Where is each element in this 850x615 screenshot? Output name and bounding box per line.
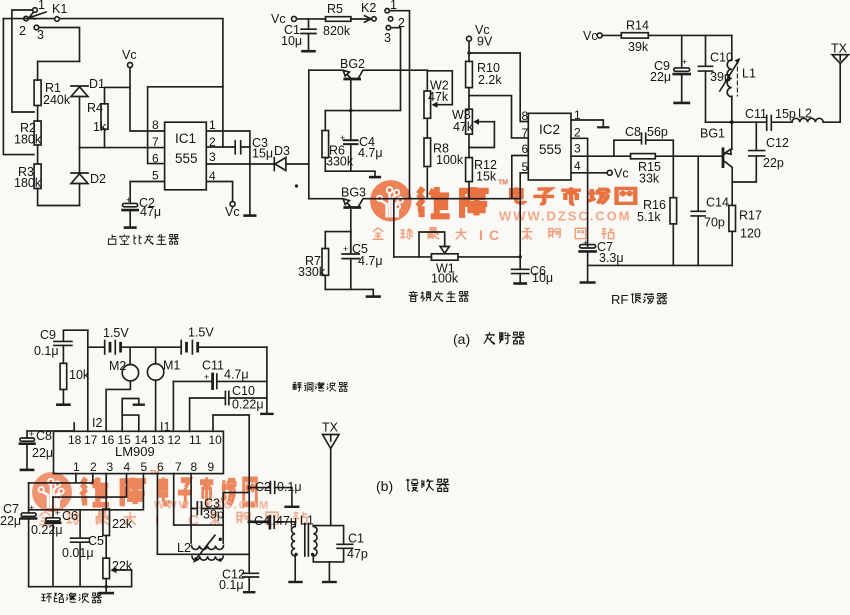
svg-text:I: I — [479, 227, 483, 243]
wire IC2 pin1 stub — [571, 120, 603, 127]
svg-text:10: 10 — [209, 433, 223, 447]
svg-text:120: 120 — [740, 227, 761, 241]
svg-text:3: 3 — [384, 31, 391, 45]
potentiometer W1 — [394, 232, 520, 260]
svg-text:Vc: Vc — [614, 167, 629, 181]
svg-text:TX: TX — [322, 421, 339, 435]
IC LM909 — [54, 431, 224, 473]
svg-text:R17: R17 — [739, 209, 762, 223]
capacitor C5 — [342, 232, 359, 290]
battery B2 1.5V — [181, 341, 267, 354]
capacitor C12 receiver 0.1u — [243, 573, 259, 592]
switch K2 — [351, 9, 393, 30]
svg-text:11: 11 — [189, 433, 202, 447]
ground below C5 — [367, 295, 380, 298]
svg-text:(a): (a) — [453, 331, 470, 347]
transistor BG3 — [309, 199, 520, 208]
wire pin7 hook — [174, 474, 224, 525]
svg-text:1: 1 — [73, 460, 80, 474]
svg-text:K2: K2 — [361, 1, 376, 15]
svg-text:TM: TM — [498, 180, 508, 187]
wire pin6 up-over to K1 drop — [148, 87, 223, 164]
svg-text:15k: 15k — [476, 170, 497, 184]
svg-text:9V: 9V — [477, 35, 493, 49]
svg-text:D2: D2 — [90, 172, 106, 186]
svg-text:9: 9 — [208, 460, 215, 474]
svg-text:0.1μ: 0.1μ — [34, 344, 59, 358]
microphone M1 — [147, 347, 163, 431]
potentiometer W3 — [466, 109, 495, 157]
resistor 10k — [57, 363, 69, 404]
svg-text:10μ: 10μ — [281, 34, 302, 48]
svg-text:3.3μ: 3.3μ — [599, 251, 624, 265]
svg-text:56p: 56p — [647, 125, 668, 139]
svg-text:6: 6 — [157, 460, 164, 474]
svg-text:D3: D3 — [274, 144, 290, 158]
svg-text:C8: C8 — [625, 125, 641, 139]
capacitor C7 receiver 22u — [21, 483, 36, 587]
svg-text:M1: M1 — [163, 359, 180, 373]
svg-text:10k: 10k — [69, 368, 90, 382]
transistor BG2 — [309, 70, 428, 79]
svg-text:I1: I1 — [160, 420, 170, 434]
diode D1 — [71, 86, 88, 148]
resistor R14 — [621, 33, 732, 38]
svg-text:1: 1 — [574, 108, 581, 122]
svg-text:16: 16 — [101, 433, 115, 447]
svg-text:0.22μ: 0.22μ — [232, 398, 264, 412]
bottom watermark — [32, 470, 307, 530]
wire pin10 hook to long column — [213, 415, 249, 573]
wire BG3 base down — [350, 208, 352, 232]
tank circuit C1 47p — [313, 526, 352, 582]
resistor R5 — [326, 17, 351, 22]
wire R6/C4 bottom to ground — [325, 171, 375, 176]
pin15 hook with ground — [122, 399, 144, 432]
svg-text:C4: C4 — [254, 514, 270, 528]
Vc terminal RF — [597, 33, 621, 38]
battery B1 1.5V — [88, 341, 181, 354]
wire pin12 column up — [172, 381, 174, 431]
svg-text:C14: C14 — [706, 196, 729, 210]
top watermark — [370, 180, 635, 244]
wire mid D1D2 junction to IC1 pin7 — [80, 147, 165, 149]
svg-text:6: 6 — [522, 142, 529, 156]
svg-text:47μ: 47μ — [276, 514, 297, 528]
capacitor C2 receiver 0.1u — [249, 482, 298, 507]
svg-text:8: 8 — [152, 118, 159, 132]
svg-text:LM909: LM909 — [115, 444, 155, 459]
capacitor C9 receiver 0.1u — [54, 330, 88, 363]
svg-text:3: 3 — [37, 28, 44, 42]
pin1 end bar — [598, 126, 608, 128]
resistor R7 — [322, 232, 329, 290]
svg-text:RF: RF — [611, 292, 628, 307]
wire pin1 to ground column — [206, 131, 250, 215]
resistor R15 — [631, 154, 656, 159]
capacitor C2 — [123, 203, 138, 227]
svg-text:L1: L1 — [742, 67, 756, 81]
svg-text:+: + — [29, 429, 34, 439]
wire IC2 pin2 to C7 column — [571, 138, 588, 246]
svg-text:Vc: Vc — [225, 205, 240, 219]
svg-text:3: 3 — [107, 460, 114, 474]
wire contact3 to D1 column — [39, 28, 80, 62]
svg-text:BG1: BG1 — [700, 127, 725, 141]
svg-text:0.01μ: 0.01μ — [62, 546, 94, 560]
wire R3 bottom to D2 bottom — [38, 189, 80, 206]
svg-text:4: 4 — [209, 169, 216, 183]
svg-text:22μ: 22μ — [650, 70, 671, 84]
svg-text:3: 3 — [209, 150, 216, 164]
svg-text:R5: R5 — [327, 2, 343, 16]
svg-text:10μ: 10μ — [532, 271, 553, 285]
wire pin4 to Vc terminal — [206, 182, 235, 207]
svg-text:2: 2 — [209, 135, 216, 149]
svg-text:70p: 70p — [704, 216, 725, 230]
ground below rail — [100, 587, 113, 593]
wire K1 top rail to pin2 drop — [3, 19, 223, 147]
caption demodulation filter — [293, 382, 348, 392]
svg-text:2: 2 — [398, 16, 405, 30]
svg-text:(b): (b) — [376, 478, 393, 494]
svg-text:7: 7 — [152, 135, 159, 149]
svg-text:555: 555 — [539, 142, 562, 157]
node dot BG1 collector — [730, 120, 734, 124]
LM909 pin numbers bottom — [73, 460, 215, 474]
svg-text:+: + — [55, 508, 60, 518]
ground pin1/C3 — [245, 214, 256, 217]
wire IC2 pin3 to R15 and BG1 base — [571, 155, 723, 157]
capacitor C3 — [206, 141, 250, 154]
diode D3 — [274, 158, 309, 171]
potentiometer W2 — [424, 70, 452, 138]
svg-text:1: 1 — [390, 0, 397, 12]
svg-text:BG2: BG2 — [340, 57, 365, 71]
svg-text:180k: 180k — [14, 176, 42, 190]
svg-text:47k: 47k — [428, 90, 449, 104]
svg-text:1.5V: 1.5V — [188, 326, 214, 340]
capacitor C11 receiver 4.7u — [173, 374, 267, 389]
svg-text:+: + — [29, 503, 34, 513]
wire contact1 to R1R2 junction — [12, 10, 34, 112]
svg-text:1: 1 — [38, 0, 45, 12]
resistor R2 — [34, 121, 41, 145]
svg-text:+: + — [583, 238, 588, 248]
svg-text:820k: 820k — [323, 24, 351, 38]
wire C3 right column — [223, 493, 249, 543]
Vc 9V terminal — [467, 36, 472, 61]
capacitor C10 receiver 0.22u — [190, 392, 267, 432]
resistor R10 — [466, 61, 473, 109]
LM909 pin numbers top — [68, 433, 222, 447]
capacitor C10 39n — [698, 35, 712, 122]
wire battery2 column down — [266, 347, 268, 413]
svg-text:4: 4 — [124, 460, 131, 474]
IC2 555 — [528, 113, 571, 180]
svg-text:C10: C10 — [710, 51, 733, 65]
svg-text:2: 2 — [90, 460, 97, 474]
wire R2-R3 — [37, 145, 39, 164]
svg-text:5.1k: 5.1k — [637, 210, 661, 224]
resistor R6 — [322, 111, 329, 172]
wire R7 C5 top junction — [325, 231, 351, 233]
caption audio generator — [409, 291, 469, 302]
capacitor C4 receiver 47u — [249, 516, 295, 528]
svg-text:Vc: Vc — [583, 29, 598, 43]
svg-text:12: 12 — [168, 433, 182, 447]
svg-text:C11: C11 — [202, 359, 224, 373]
svg-text:WWW.DZSC.COM: WWW.DZSC.COM — [499, 209, 631, 224]
pin18 stub — [73, 423, 75, 431]
Vc terminal top-left — [128, 63, 165, 132]
svg-text:7: 7 — [522, 126, 529, 140]
svg-text:1k: 1k — [93, 120, 107, 134]
svg-text:100k: 100k — [436, 153, 464, 167]
svg-text:2: 2 — [574, 126, 581, 140]
svg-text:47μ: 47μ — [140, 205, 161, 219]
wire R1-R2 — [37, 106, 39, 122]
ground below C7 — [581, 281, 594, 284]
wire K2 contact1 down long column — [389, 11, 409, 199]
svg-text:5: 5 — [141, 460, 148, 474]
end bar below C10 — [261, 413, 272, 415]
resistor R1 — [34, 80, 41, 106]
svg-text:R4: R4 — [87, 101, 103, 115]
wire pin5 to C2 — [130, 182, 164, 204]
svg-text:0.22μ: 0.22μ — [31, 523, 63, 537]
svg-text:8: 8 — [191, 460, 198, 474]
svg-text:7: 7 — [175, 460, 182, 474]
inductor L2 — [792, 118, 840, 122]
svg-text:0.1μ: 0.1μ — [277, 480, 302, 494]
IC2 pin numbers — [522, 108, 582, 174]
capacitor C1 — [301, 19, 316, 51]
caption loop filter — [41, 593, 102, 603]
svg-text:15μ: 15μ — [252, 147, 273, 161]
wire node to C11 — [732, 121, 767, 123]
resistor R4 — [101, 87, 130, 147]
wire Vc9V to IC2 pin8 — [469, 53, 528, 122]
svg-text:Vc: Vc — [122, 48, 137, 62]
svg-text:4: 4 — [574, 159, 581, 173]
wire emitter column left — [308, 70, 310, 199]
wire pin5 hook — [29, 474, 144, 510]
Vc terminal middle — [292, 16, 326, 21]
svg-text:C10: C10 — [232, 384, 255, 398]
resistor R3 — [34, 164, 41, 189]
wire C10 bottom to BG1 node — [706, 121, 732, 123]
switch K1 — [24, 8, 60, 30]
wire IC2 pin5 down to C6 — [520, 173, 528, 269]
resistor R12 — [466, 158, 473, 199]
svg-text:+: + — [126, 195, 131, 205]
svg-text:+: + — [682, 57, 687, 67]
wire IC2 pin6 down to audio line — [512, 156, 529, 199]
transformer L1 receiver — [290, 522, 318, 582]
svg-text:4.7μ: 4.7μ — [358, 146, 383, 160]
microphone M2 — [106, 347, 138, 431]
resistor R16 — [670, 156, 677, 265]
svg-text:39p: 39p — [203, 508, 224, 522]
svg-text:C9: C9 — [40, 328, 56, 342]
svg-text:39n: 39n — [710, 70, 731, 84]
wire L2 bottom to C12 column — [224, 553, 250, 555]
resistor 22k fixed — [103, 474, 110, 558]
wire pin1 pin2 stubs to C7 line — [29, 474, 93, 483]
svg-text:22μ: 22μ — [32, 446, 53, 460]
IC1 555 — [165, 122, 207, 190]
capacitor C6 — [512, 269, 529, 283]
wire R10 bottom to IC2 pin7 — [469, 96, 528, 138]
wire pin4 hook — [53, 474, 127, 498]
svg-text:D1: D1 — [89, 77, 105, 91]
wire pin8 column — [190, 474, 192, 543]
svg-text:22μ: 22μ — [0, 514, 21, 528]
svg-text:22p: 22p — [763, 156, 784, 170]
wire IC2 pin4 to Vc terminal — [571, 170, 612, 175]
svg-text:K1: K1 — [52, 2, 67, 16]
svg-text:4.7μ: 4.7μ — [224, 368, 249, 382]
svg-text:555: 555 — [175, 151, 198, 166]
svg-text:22k: 22k — [112, 559, 133, 573]
antenna TX receiver — [323, 435, 340, 526]
wire R1 top join D1 top — [38, 61, 80, 80]
RF bottom rail — [588, 264, 733, 266]
capacitor C8 receiver 22u — [20, 431, 74, 470]
resistor R8 — [424, 138, 431, 199]
transistor BG1 — [723, 122, 756, 182]
svg-text:2: 2 — [19, 24, 26, 38]
resistor 22k preset — [103, 558, 132, 587]
svg-text:47p: 47p — [347, 547, 368, 561]
svg-text:17: 17 — [84, 433, 98, 447]
svg-text:C: C — [489, 227, 499, 243]
svg-text:IC1: IC1 — [175, 131, 196, 146]
inductor L1 adjustable — [720, 35, 741, 122]
transformer L2 adjustable — [192, 535, 224, 563]
capacitor C7 3.3u — [580, 245, 596, 282]
svg-text:TX: TX — [831, 42, 848, 56]
svg-text:2.2k: 2.2k — [478, 73, 502, 87]
svg-text:C12: C12 — [766, 136, 789, 150]
wire pin6 column to L2 bottom — [157, 474, 249, 555]
svg-text:C8: C8 — [36, 429, 52, 443]
svg-text:18: 18 — [68, 433, 82, 447]
capacitor C3 receiver 39p — [191, 502, 223, 515]
wire contact2 left drop to R2R3 junction — [3, 19, 34, 155]
svg-text:C2: C2 — [255, 480, 271, 494]
capacitor C6 receiver 0.22u — [46, 497, 60, 587]
resistor R17 — [729, 182, 736, 265]
svg-text:+: + — [204, 372, 209, 382]
node dot near D3 — [295, 184, 298, 187]
svg-text:3: 3 — [574, 142, 581, 156]
svg-text:39k: 39k — [628, 40, 649, 54]
capacitor C8 56p — [614, 133, 673, 156]
svg-text:I2: I2 — [92, 416, 102, 430]
wire pin3 to D3 — [206, 163, 274, 165]
wire R7/C5 bottom to ground — [325, 289, 373, 295]
svg-text:0.1μ: 0.1μ — [219, 578, 244, 592]
svg-text:33k: 33k — [639, 172, 660, 186]
svg-text:5: 5 — [522, 160, 529, 174]
svg-text:C11: C11 — [745, 107, 767, 121]
svg-text:C1: C1 — [348, 532, 364, 546]
svg-text:6: 6 — [152, 152, 159, 166]
svg-text:8: 8 — [522, 109, 529, 123]
svg-text:M2: M2 — [109, 359, 126, 373]
svg-text:C6: C6 — [62, 509, 78, 523]
IC1 pin numbers — [152, 118, 216, 183]
svg-text:15p: 15p — [775, 107, 796, 121]
wire K2 contact3 down to R6 top line — [325, 28, 400, 111]
capacitor C9 22u — [674, 35, 690, 103]
svg-text:1: 1 — [209, 118, 216, 132]
capacitor C12 22p — [749, 122, 765, 156]
svg-text:L1: L1 — [300, 514, 314, 528]
svg-text:330k: 330k — [298, 265, 326, 279]
capacitor C5 receiver 0.01u — [71, 510, 90, 587]
svg-text:R14: R14 — [626, 19, 649, 33]
capacitor C11 15p — [767, 116, 792, 131]
svg-text:240k: 240k — [43, 93, 71, 107]
svg-text:4.7μ: 4.7μ — [358, 254, 383, 268]
caption duty-cycle generator — [108, 234, 178, 245]
svg-text:22k: 22k — [112, 517, 133, 531]
pin14 hook to pin15 column — [122, 415, 139, 431]
capacitor C4 — [344, 140, 358, 171]
svg-text:47k: 47k — [453, 120, 474, 134]
ground below C4 — [370, 176, 380, 179]
svg-text:+: + — [343, 244, 348, 254]
wire C9 column to pin17 — [87, 330, 89, 431]
svg-text:L2: L2 — [798, 107, 812, 121]
svg-text:IC2: IC2 — [539, 122, 560, 137]
capacitor C14 — [691, 156, 705, 265]
antenna TX transmitter — [832, 55, 848, 123]
svg-text:330k: 330k — [326, 155, 354, 169]
svg-text:1.5V: 1.5V — [103, 326, 129, 340]
wire BG2 base down — [350, 79, 352, 140]
svg-text:180k: 180k — [14, 133, 42, 147]
receiver bottom rail — [29, 586, 132, 588]
svg-text:5: 5 — [152, 169, 159, 183]
svg-text:BG3: BG3 — [341, 186, 366, 200]
wire BG3 collector drop to W1 — [393, 199, 395, 257]
svg-text:L2: L2 — [177, 541, 191, 555]
diode D2 — [71, 148, 88, 206]
svg-text:100k: 100k — [431, 272, 459, 286]
svg-text:+: + — [340, 133, 345, 143]
